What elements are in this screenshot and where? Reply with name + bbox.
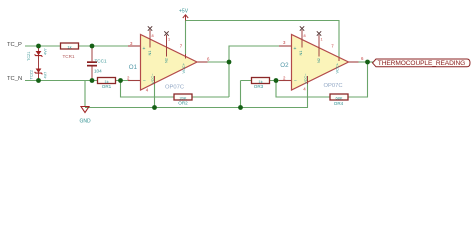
capacitor TCC1 plates	[87, 61, 97, 63]
junction at op-amp2 pin2	[274, 78, 279, 83]
svg-text:+: +	[143, 46, 146, 52]
pin 2 op-amp1	[128, 80, 141, 82]
junction at op-amp2 output	[365, 60, 370, 65]
svg-text:+: +	[294, 46, 297, 52]
svg-text:GND: GND	[79, 119, 91, 125]
diode TCZ1 (zener)	[35, 51, 43, 57]
diode TCZ2 (zener)	[35, 69, 43, 75]
wire TC_P to TCR1 and pin3 row	[25, 45, 128, 47]
ground symbol GND	[79, 107, 91, 125]
wire output op-amp2 to net label	[359, 61, 374, 63]
supply +5V symbol	[179, 8, 189, 20]
pin 3 op-amp2	[279, 45, 292, 47]
pin 6 op-amp1	[197, 61, 208, 63]
svg-text:1: 1	[321, 38, 323, 42]
wire output op-amp1	[208, 61, 230, 63]
wire TC_N row	[25, 80, 128, 82]
junction at TC_N / capacitor bottom	[90, 78, 95, 83]
resistor OR1	[98, 78, 116, 90]
svg-text:OR4: OR4	[334, 101, 344, 106]
junction at op-amp1 output	[227, 60, 232, 65]
junction at TC_P / capacitor top	[90, 44, 95, 49]
svg-text:104: 104	[94, 69, 102, 74]
pin 4 op-amp2 inner stub	[307, 76, 309, 84]
svg-text:OP07C: OP07C	[324, 83, 343, 89]
svg-text:N2: N2	[316, 58, 321, 63]
svg-text:TC_N: TC_N	[7, 76, 22, 82]
wire pin4 op-amp1 to GND rail	[154, 84, 156, 108]
junction at GND rail / OR3 leg	[238, 105, 243, 110]
resistor OR3	[252, 78, 270, 90]
pin 2 op-amp2	[279, 80, 292, 82]
junction at GND rail / pin4 op-amp1	[152, 105, 157, 110]
svg-text:O1: O1	[129, 64, 138, 71]
wire GND rail	[85, 83, 308, 108]
svg-text:N1: N1	[147, 51, 152, 56]
pin 8 op-amp1 (offset null, n.c.)	[148, 26, 152, 47]
wire OR3 row to op-amp2 pin2	[241, 80, 280, 82]
pin 1 op-amp2 (offset null, n.c.)	[317, 31, 321, 56]
capacitor TCC1 lead top	[91, 46, 93, 61]
svg-text:8: 8	[152, 34, 154, 38]
svg-text:N1: N1	[298, 51, 303, 56]
svg-text:VCC+: VCC+	[334, 62, 339, 73]
junction at TC_P / diode	[36, 44, 41, 49]
svg-text:1: 1	[168, 38, 170, 42]
op-amp U2 triangle	[292, 35, 349, 91]
wire OR3 left leg to GND rail	[240, 81, 242, 108]
resistor OR2	[174, 94, 192, 106]
wire GND branch	[84, 81, 86, 107]
pin 8 op-amp2 (offset null, n.c.)	[300, 26, 304, 47]
wire op-amp2 pin2 down to feedback row 2	[276, 81, 330, 98]
svg-text:TCR1: TCR1	[63, 54, 75, 59]
svg-text:VCC−: VCC−	[303, 73, 308, 84]
svg-text:4V7: 4V7	[44, 72, 48, 79]
svg-text:68K: 68K	[335, 95, 342, 100]
pin 7 op-amp2 inner stub	[338, 58, 340, 62]
net flag THERMOCOUPLE_READING	[373, 59, 471, 67]
junction at TC_N / diode	[36, 78, 41, 83]
pin 7 op-amp1 inner stub	[185, 54, 187, 59]
svg-text:OR1: OR1	[102, 84, 112, 89]
svg-text:20K: 20K	[179, 95, 186, 100]
svg-text:+5V: +5V	[179, 8, 189, 14]
pin 1 op-amp1 (offset null, n.c.)	[164, 31, 168, 56]
pin 3 op-amp1	[128, 45, 141, 47]
svg-text:1k: 1k	[67, 44, 71, 49]
wire OR1 junction down to feedback row	[121, 81, 175, 98]
svg-text:TC_P: TC_P	[7, 42, 22, 48]
svg-text:VCC−: VCC−	[150, 73, 155, 84]
svg-text:4V7: 4V7	[44, 48, 48, 55]
wire +5V rail	[186, 21, 340, 58]
capacitor TCC1 lead bottom	[91, 67, 93, 81]
resistor OR4	[330, 94, 348, 106]
svg-text:VCC+: VCC+	[181, 62, 186, 73]
svg-text:−: −	[143, 79, 146, 85]
wire +5V to pin7 op-amp1	[185, 21, 187, 55]
wire interstage vertical column	[229, 46, 279, 97]
svg-text:OR3: OR3	[254, 84, 264, 89]
svg-text:OP07C: OP07C	[165, 84, 184, 90]
pin 4 op-amp1 inner stub	[154, 76, 156, 84]
resistor TCR1	[61, 43, 79, 59]
op-amp U1 triangle	[141, 35, 198, 91]
diode TCZ1 lead	[38, 46, 40, 81]
svg-text:N2: N2	[163, 58, 168, 63]
wire OR2 to interstage column	[192, 96, 229, 98]
junction at OR1 / pin2 column	[118, 78, 123, 83]
svg-text:−: −	[294, 79, 297, 85]
svg-text:TCZ1: TCZ1	[27, 52, 31, 62]
svg-text:OR2: OR2	[178, 101, 188, 106]
wire OR4 to output column 2	[348, 62, 368, 97]
svg-text:O2: O2	[280, 62, 289, 69]
svg-text:8: 8	[304, 34, 306, 38]
svg-text:TCZ2: TCZ2	[30, 70, 34, 80]
pin 6 op-amp2	[349, 61, 359, 63]
svg-text:THERMOCOUPLE_READING: THERMOCOUPLE_READING	[378, 60, 465, 67]
svg-text:TCC1: TCC1	[95, 59, 107, 64]
